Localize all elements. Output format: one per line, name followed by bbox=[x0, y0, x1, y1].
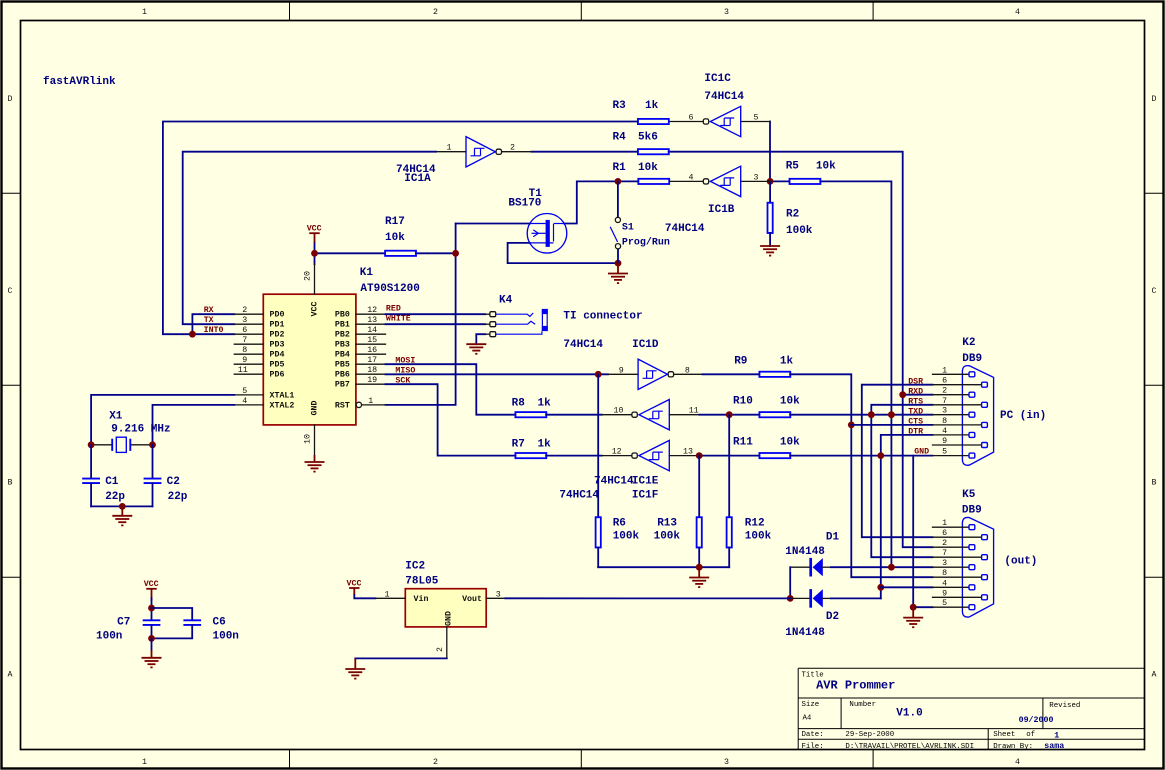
svg-text:S1: S1 bbox=[622, 223, 634, 234]
capacitor C1 22p bbox=[82, 445, 125, 507]
ground below R2 bbox=[760, 246, 780, 256]
svg-text:100n: 100n bbox=[213, 631, 239, 643]
svg-text:3: 3 bbox=[724, 758, 729, 767]
resistor R13 bbox=[654, 456, 702, 568]
svg-text:R13: R13 bbox=[657, 518, 677, 530]
wire D1 to K5 pin3 bbox=[831, 566, 933, 568]
svg-text:IC1C: IC1C bbox=[704, 73, 731, 85]
svg-text:IC1D: IC1D bbox=[632, 339, 659, 351]
ground below S1 bbox=[608, 263, 628, 283]
svg-text:R10: R10 bbox=[733, 396, 753, 408]
wire net R4 row to PD1/TX bbox=[183, 152, 436, 325]
svg-text:1: 1 bbox=[142, 758, 147, 767]
connector K4 TI connector bbox=[485, 295, 642, 337]
svg-text:5: 5 bbox=[754, 114, 759, 123]
svg-text:10k: 10k bbox=[816, 161, 836, 173]
svg-text:11: 11 bbox=[689, 407, 699, 416]
svg-text:1N4148: 1N4148 bbox=[785, 546, 825, 558]
svg-text:PB0: PB0 bbox=[335, 311, 350, 320]
svg-text:PD3: PD3 bbox=[270, 341, 285, 350]
svg-text:PD4: PD4 bbox=[270, 351, 285, 360]
svg-text:PC (in): PC (in) bbox=[1000, 410, 1046, 422]
power port VCC at IC2 bbox=[347, 580, 362, 596]
svg-text:X1: X1 bbox=[109, 411, 123, 423]
svg-text:9: 9 bbox=[942, 437, 947, 446]
svg-text:8: 8 bbox=[942, 417, 947, 426]
svg-text:WHITE: WHITE bbox=[386, 315, 411, 324]
svg-text:RED: RED bbox=[386, 305, 401, 314]
svg-text:1k: 1k bbox=[538, 439, 552, 451]
connector K5 DB9 (out) bbox=[933, 489, 1038, 617]
svg-text:29-Sep-2000: 29-Sep-2000 bbox=[845, 731, 894, 739]
svg-text:22p: 22p bbox=[105, 491, 125, 503]
svg-text:AT90S1200: AT90S1200 bbox=[360, 283, 419, 295]
svg-text:1: 1 bbox=[1054, 732, 1059, 741]
svg-text:1: 1 bbox=[447, 144, 452, 153]
net label SCK bbox=[395, 376, 410, 385]
svg-text:PD0: PD0 bbox=[270, 311, 285, 320]
wire IC1F input to R11 bbox=[699, 455, 759, 457]
svg-text:1: 1 bbox=[942, 366, 947, 375]
resistor R7 bbox=[512, 439, 602, 459]
wire PB0 to K4 bbox=[386, 313, 486, 315]
svg-text:12: 12 bbox=[367, 306, 377, 315]
svg-text:7: 7 bbox=[242, 336, 247, 345]
svg-text:1: 1 bbox=[368, 397, 373, 406]
svg-text:2: 2 bbox=[242, 306, 247, 315]
wire CTS row bbox=[851, 424, 932, 426]
wire IC1E input to R10 bbox=[699, 414, 759, 416]
wire XTAL1 to crystal bbox=[91, 395, 234, 445]
svg-text:1k: 1k bbox=[538, 398, 552, 410]
svg-text:1: 1 bbox=[942, 519, 947, 528]
svg-text:4: 4 bbox=[689, 174, 694, 183]
wire K4 pin3 to ground bbox=[476, 334, 485, 344]
svg-text:RXD: RXD bbox=[908, 387, 923, 396]
junction C7 bottom bbox=[148, 635, 155, 642]
svg-text:2: 2 bbox=[433, 758, 438, 767]
svg-text:PD1: PD1 bbox=[270, 321, 285, 330]
svg-text:PB7: PB7 bbox=[335, 381, 350, 390]
net label GND bbox=[914, 447, 929, 456]
svg-text:DB9: DB9 bbox=[962, 505, 982, 517]
svg-text:9: 9 bbox=[619, 366, 624, 375]
resistor R4 bbox=[613, 132, 669, 155]
wire RX to INT0 link bbox=[192, 314, 234, 334]
svg-text:R11: R11 bbox=[733, 436, 753, 448]
svg-text:A: A bbox=[1152, 671, 1157, 680]
svg-text:VCC: VCC bbox=[144, 580, 159, 589]
wire DTR row down to D2 bbox=[881, 435, 933, 599]
svg-text:9: 9 bbox=[242, 356, 247, 365]
net label RED bbox=[386, 305, 401, 314]
svg-text:18: 18 bbox=[367, 366, 377, 375]
svg-text:3: 3 bbox=[942, 559, 947, 568]
svg-text:GND: GND bbox=[445, 611, 454, 626]
wire VCC to R17 bbox=[315, 243, 386, 265]
svg-text:100k: 100k bbox=[745, 531, 772, 543]
svg-text:Drawn By:: Drawn By: bbox=[993, 743, 1033, 751]
op-amp inverter IC1C 74HC14 bbox=[670, 73, 770, 137]
resistor R17 bbox=[385, 216, 416, 256]
svg-text:R5: R5 bbox=[786, 161, 800, 173]
svg-text:BS170: BS170 bbox=[508, 198, 541, 210]
op-amp inverter IC1F 74HC14 bbox=[559, 440, 699, 501]
wire R11 to K2 GND row bbox=[790, 455, 932, 457]
svg-text:TI connector: TI connector bbox=[563, 311, 642, 323]
svg-text:74HC14: 74HC14 bbox=[704, 91, 744, 103]
svg-text:10: 10 bbox=[304, 434, 313, 444]
svg-text:19: 19 bbox=[367, 376, 377, 385]
svg-text:C1: C1 bbox=[105, 476, 119, 488]
net label RX bbox=[204, 306, 214, 315]
diode D1 1N4148 bbox=[785, 532, 839, 577]
svg-text:D: D bbox=[1152, 95, 1157, 104]
svg-text:Number: Number bbox=[849, 701, 876, 709]
svg-text:Date:: Date: bbox=[802, 731, 824, 739]
IC K1 AT90S1200 bbox=[234, 264, 420, 455]
svg-text:09/2000: 09/2000 bbox=[1019, 715, 1054, 725]
svg-text:3: 3 bbox=[242, 316, 247, 325]
svg-text:5k6: 5k6 bbox=[638, 132, 658, 144]
wire T1 source to S1 ground node bbox=[508, 243, 618, 263]
svg-text:6: 6 bbox=[689, 114, 694, 123]
svg-text:Revised: Revised bbox=[1049, 702, 1080, 710]
svg-text:10: 10 bbox=[614, 407, 624, 416]
svg-text:R9: R9 bbox=[734, 356, 747, 368]
net label DTR bbox=[908, 427, 923, 436]
IC2 78L05 regulator bbox=[375, 561, 505, 659]
svg-text:10k: 10k bbox=[638, 162, 658, 174]
svg-text:1N4148: 1N4148 bbox=[785, 627, 825, 639]
svg-text:CTS: CTS bbox=[908, 417, 923, 426]
junction CTS / R9 vertical bbox=[848, 422, 855, 429]
svg-text:4: 4 bbox=[942, 579, 947, 588]
resistor R2 bbox=[768, 181, 813, 246]
svg-text:4: 4 bbox=[242, 397, 247, 406]
resistor R1 bbox=[613, 162, 670, 184]
junction IC1E input / R12 bbox=[726, 411, 733, 418]
resistor R3 bbox=[613, 100, 669, 124]
svg-text:8: 8 bbox=[242, 346, 247, 355]
wire GND row down to K5 pin5 bbox=[913, 456, 932, 608]
svg-text:6: 6 bbox=[942, 377, 947, 386]
svg-text:A: A bbox=[8, 671, 13, 680]
svg-text:1: 1 bbox=[142, 8, 147, 17]
svg-text:R3: R3 bbox=[613, 100, 627, 112]
junction K5 pin5 ground bbox=[910, 604, 917, 611]
net label RTS bbox=[908, 397, 923, 406]
svg-text:K5: K5 bbox=[962, 489, 976, 501]
svg-text:B: B bbox=[1152, 479, 1157, 488]
svg-text:Sheet: Sheet bbox=[993, 731, 1015, 739]
junction S1 ground node bbox=[615, 260, 622, 267]
svg-text:100k: 100k bbox=[654, 531, 681, 543]
svg-text:12: 12 bbox=[612, 448, 622, 457]
svg-text:2: 2 bbox=[433, 8, 438, 17]
svg-text:C: C bbox=[1152, 287, 1157, 296]
resistor R8 bbox=[512, 398, 602, 418]
junction MISO/R6 bbox=[595, 371, 602, 378]
svg-text:RTS: RTS bbox=[908, 397, 923, 406]
svg-text:6: 6 bbox=[242, 326, 247, 335]
svg-text:R17: R17 bbox=[385, 216, 405, 228]
resistor R12 bbox=[727, 415, 772, 568]
junction R1/S1/T1 bbox=[615, 178, 622, 185]
wire SCK to R7 bbox=[386, 384, 516, 455]
svg-text:IC1F: IC1F bbox=[632, 490, 658, 502]
svg-text:15: 15 bbox=[367, 336, 377, 345]
net label TX bbox=[204, 316, 214, 325]
svg-text:D2: D2 bbox=[826, 611, 839, 623]
junction DTR / K5 pin4 bbox=[877, 584, 884, 591]
svg-text:14: 14 bbox=[367, 326, 377, 335]
svg-text:3: 3 bbox=[496, 591, 501, 600]
svg-text:TXD: TXD bbox=[908, 407, 923, 416]
svg-text:C6: C6 bbox=[213, 617, 226, 629]
wire IC2 Vout to D2 bbox=[505, 597, 790, 599]
svg-text:PD5: PD5 bbox=[270, 361, 285, 370]
svg-text:8: 8 bbox=[685, 366, 690, 375]
svg-text:17: 17 bbox=[367, 356, 377, 365]
svg-text:20: 20 bbox=[304, 271, 313, 281]
svg-text:fastAVRlink: fastAVRlink bbox=[43, 76, 116, 88]
svg-text:3: 3 bbox=[724, 8, 729, 17]
wire R17 to T1 gate and RST bbox=[386, 224, 530, 405]
svg-text:IC1E: IC1E bbox=[632, 476, 659, 488]
svg-text:K1: K1 bbox=[360, 267, 374, 279]
wire IC1A output to R4 bbox=[532, 151, 638, 153]
wire MISO to IC1D input bbox=[386, 373, 609, 375]
svg-text:VCC: VCC bbox=[311, 302, 320, 317]
svg-text:XTAL2: XTAL2 bbox=[270, 401, 295, 410]
svg-text:INT0: INT0 bbox=[204, 326, 224, 335]
svg-text:DB9: DB9 bbox=[962, 353, 982, 365]
junction VCC pin20 bbox=[311, 250, 318, 257]
svg-text:8: 8 bbox=[942, 569, 947, 578]
svg-text:VCC: VCC bbox=[307, 225, 322, 234]
svg-text:10k: 10k bbox=[385, 232, 405, 244]
ground at K5 pin5 bbox=[903, 607, 923, 627]
svg-text:C: C bbox=[8, 287, 13, 296]
svg-text:GND: GND bbox=[311, 401, 320, 416]
svg-text:K2: K2 bbox=[962, 337, 975, 349]
svg-text:100n: 100n bbox=[96, 631, 122, 643]
svg-text:10k: 10k bbox=[780, 436, 800, 448]
svg-text:D:\TRAVAIL\PROTEL\AVRLINK.SDI: D:\TRAVAIL\PROTEL\AVRLINK.SDI bbox=[845, 743, 974, 751]
svg-text:R7: R7 bbox=[512, 439, 525, 451]
svg-text:1k: 1k bbox=[645, 100, 659, 112]
label 74HC14 of IC1D bbox=[563, 339, 603, 351]
svg-text:100k: 100k bbox=[613, 531, 640, 543]
svg-text:11: 11 bbox=[238, 366, 248, 375]
svg-text:B: B bbox=[8, 479, 13, 488]
wire DSR row to K5 pin6 bbox=[862, 385, 933, 538]
wire MOSI to R8 bbox=[386, 364, 516, 415]
svg-text:XTAL1: XTAL1 bbox=[270, 391, 295, 400]
svg-text:1: 1 bbox=[385, 591, 390, 600]
svg-text:PB2: PB2 bbox=[335, 331, 350, 340]
svg-text:sama: sama bbox=[1044, 742, 1064, 751]
net label INT0 bbox=[204, 326, 224, 335]
junction R17/RST/T1 bbox=[452, 250, 459, 257]
svg-text:R8: R8 bbox=[512, 398, 526, 410]
net label WHITE bbox=[386, 315, 411, 324]
svg-text:5: 5 bbox=[242, 387, 247, 396]
sheet title text fastAVRlink bbox=[43, 76, 116, 88]
junction TXD / RTS vertical bbox=[868, 411, 875, 418]
svg-text:D: D bbox=[8, 95, 13, 104]
switch S1 Prog/Run bbox=[610, 181, 670, 263]
svg-text:74HC14: 74HC14 bbox=[665, 223, 705, 235]
svg-text:K4: K4 bbox=[499, 295, 513, 307]
svg-text:PB5: PB5 bbox=[335, 361, 350, 370]
svg-text:V1.0: V1.0 bbox=[896, 708, 922, 720]
ground below IC2 bbox=[345, 658, 365, 678]
junction D2 row bbox=[787, 595, 794, 602]
svg-text:R6: R6 bbox=[613, 518, 626, 530]
capacitor C2 22p bbox=[144, 445, 188, 507]
resistor R10 bbox=[733, 396, 800, 418]
svg-text:PB1: PB1 bbox=[335, 321, 350, 330]
svg-text:RX: RX bbox=[204, 306, 214, 315]
wire R9 to K5 pin8 bbox=[790, 374, 932, 577]
svg-text:PB3: PB3 bbox=[335, 341, 350, 350]
title block bbox=[798, 668, 1144, 751]
svg-text:6: 6 bbox=[942, 529, 947, 538]
svg-text:TX: TX bbox=[204, 316, 214, 325]
svg-text:AVR Prommer: AVR Prommer bbox=[816, 679, 895, 693]
junction on INT0 node bbox=[189, 331, 196, 338]
junction DTR / GND row bbox=[877, 452, 884, 459]
junction D1 / R5 net bbox=[888, 564, 895, 571]
svg-text:File:: File: bbox=[802, 743, 824, 751]
junction IC1B input / R5 / R2 bbox=[767, 178, 774, 185]
net label TXD bbox=[908, 407, 923, 416]
net label RXD bbox=[908, 387, 923, 396]
junction crystal ground bbox=[119, 503, 126, 510]
ground below crystal bbox=[112, 506, 132, 525]
svg-text:7: 7 bbox=[942, 397, 947, 406]
svg-text:Size: Size bbox=[802, 701, 820, 709]
svg-text:9: 9 bbox=[942, 589, 947, 598]
junction RXD bbox=[899, 391, 906, 398]
svg-text:10k: 10k bbox=[780, 396, 800, 408]
net label MOSI bbox=[395, 356, 415, 365]
wire D1 down to D2 row bbox=[789, 567, 791, 598]
svg-text:Prog/Run: Prog/Run bbox=[622, 237, 670, 249]
svg-text:1k: 1k bbox=[780, 356, 794, 368]
junction C7 top bbox=[148, 605, 155, 612]
op-amp inverter IC1A 74HC14 bbox=[396, 137, 532, 185]
power port VCC at C7 bbox=[144, 580, 159, 600]
svg-text:IC2: IC2 bbox=[405, 561, 425, 573]
wire IC1C output vertical to R1 node bbox=[769, 122, 771, 182]
svg-text:100k: 100k bbox=[786, 225, 813, 237]
svg-text:3: 3 bbox=[942, 407, 947, 416]
op-amp inverter IC1B 74HC14 bbox=[665, 166, 770, 235]
svg-text:C7: C7 bbox=[117, 617, 130, 629]
svg-text:5: 5 bbox=[942, 599, 947, 608]
svg-text:4: 4 bbox=[942, 427, 947, 436]
ground below R13 bbox=[689, 567, 709, 587]
junction crystal left bbox=[88, 441, 95, 448]
svg-text:9.216 MHz: 9.216 MHz bbox=[111, 424, 170, 436]
capacitor C7 100n bbox=[96, 598, 160, 643]
svg-text:A4: A4 bbox=[803, 715, 812, 723]
wire IC2 GND to ground bbox=[355, 657, 447, 659]
wire R5 to TXD vertical bbox=[820, 181, 891, 567]
svg-text:DTR: DTR bbox=[908, 427, 923, 436]
svg-text:2: 2 bbox=[942, 539, 947, 548]
svg-text:PD6: PD6 bbox=[270, 371, 285, 380]
wire crystal ground row bbox=[91, 505, 152, 507]
crystal X1 9.216 MHz bbox=[91, 411, 171, 453]
svg-text:74HC14: 74HC14 bbox=[559, 490, 599, 502]
svg-text:IC1A: IC1A bbox=[404, 173, 431, 185]
wire R4 to RXD vertical bbox=[669, 152, 933, 548]
wire IC1D output to R9 bbox=[703, 373, 760, 375]
svg-text:D1: D1 bbox=[826, 532, 840, 544]
svg-text:7: 7 bbox=[942, 549, 947, 558]
svg-text:DSR: DSR bbox=[908, 377, 923, 386]
ground at K4 bbox=[466, 344, 486, 354]
svg-text:2: 2 bbox=[510, 144, 515, 153]
ground below C7 bbox=[142, 638, 162, 667]
svg-text:13: 13 bbox=[683, 448, 693, 457]
wire PB1 to K4 bbox=[386, 323, 486, 325]
ground below K1 pin10 bbox=[305, 455, 325, 472]
svg-text:R4: R4 bbox=[613, 132, 627, 144]
svg-text:4: 4 bbox=[1015, 8, 1020, 17]
svg-text:GND: GND bbox=[914, 447, 929, 456]
resistor R5 bbox=[770, 161, 836, 185]
svg-text:IC1B: IC1B bbox=[708, 204, 735, 216]
svg-text:3: 3 bbox=[754, 174, 759, 183]
connector K2 DB9 PC (in) bbox=[933, 337, 1047, 465]
svg-text:R12: R12 bbox=[745, 518, 765, 530]
resistor R9 bbox=[734, 356, 793, 377]
wire K5 pin4 row bbox=[881, 586, 933, 588]
wire VCC to IC2 Vin bbox=[354, 595, 375, 598]
svg-text:of: of bbox=[1026, 731, 1035, 739]
svg-text:C2: C2 bbox=[167, 476, 180, 488]
svg-text:4: 4 bbox=[1015, 758, 1020, 767]
wire R10 to K2 TXD bbox=[790, 414, 932, 416]
svg-text:R2: R2 bbox=[786, 209, 799, 221]
svg-text:Vout: Vout bbox=[462, 595, 482, 604]
svg-text:RST: RST bbox=[335, 401, 350, 410]
svg-text:Vin: Vin bbox=[414, 594, 429, 604]
svg-text:5: 5 bbox=[942, 448, 947, 457]
wire D2 to K5 pin4 net bbox=[831, 597, 881, 599]
svg-text:2: 2 bbox=[942, 387, 947, 396]
junction crystal right bbox=[149, 441, 156, 448]
wire T1 drain to R1 node bbox=[564, 181, 638, 223]
svg-text:74HC14: 74HC14 bbox=[563, 339, 603, 351]
transistor T1 BS170 bbox=[508, 188, 566, 253]
svg-text:R1: R1 bbox=[613, 162, 627, 174]
svg-text:2: 2 bbox=[436, 647, 445, 652]
junction pulldown ground bbox=[696, 564, 703, 571]
svg-text:78L05: 78L05 bbox=[405, 576, 438, 588]
diode D2 1N4148 bbox=[785, 589, 839, 639]
svg-text:PB6: PB6 bbox=[335, 371, 350, 380]
wire pulldown ground row bbox=[598, 566, 729, 568]
wire RXD row bbox=[903, 394, 933, 396]
net label CTS bbox=[908, 417, 923, 426]
svg-text:PB4: PB4 bbox=[335, 351, 350, 360]
